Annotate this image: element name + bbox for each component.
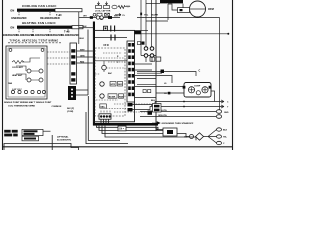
limit switch LS2 (104, 6, 110, 9)
wire to comp 2 (156, 92, 184, 94)
compressor box COMP (184, 83, 211, 98)
wire from enclosure top to fuse holder (134, 30, 148, 32)
wire row 2b (137, 72, 162, 74)
cooling fan logic tick mark t1 (49, 12, 51, 16)
thermostat mounting screw top-right (41, 49, 44, 52)
wire BLK to enclosure (79, 27, 94, 29)
svg-text:COMMON: COMMON (52, 106, 62, 108)
thick bottom bus bar (93, 123, 158, 126)
svg-text:HTR: HTR (111, 84, 116, 86)
svg-text:GND: GND (224, 112, 229, 114)
24V common terminal block (68, 86, 76, 100)
svg-text:FAN: FAN (119, 95, 124, 98)
wire G to board (77, 62, 93, 64)
thermostat internal wires (16, 66, 39, 80)
svg-text:ON: ON (10, 25, 14, 29)
compressor motor winding right (202, 87, 208, 93)
svg-text:IFC: IFC (104, 43, 110, 47)
capacitor box 46 (163, 128, 177, 136)
terminal oval YEL (217, 135, 222, 138)
svg-text:FAN: FAN (8, 82, 13, 85)
long wire with arrow 2 (155, 105, 224, 108)
svg-text:G W Y R C: G W Y R C (12, 89, 22, 91)
svg-text:COOLING FAN LOGIC: COOLING FAN LOGIC (22, 4, 57, 8)
svg-text:DE-ENERGIZED: DE-ENERGIZED (61, 34, 79, 37)
vertical wire parallel to enclosure (87, 30, 89, 96)
wire W to board (77, 50, 93, 52)
svg-text:OFM: OFM (208, 7, 214, 11)
relay K2 contact block (110, 82, 116, 87)
svg-text:DE-ENERGIZED: DE-ENERGIZED (31, 34, 49, 37)
field 24V wiring legend box (22, 129, 43, 135)
wire from heating logic down to terminal strip (78, 12, 80, 44)
wire row 3 (135, 76, 173, 84)
svg-text:RED: RED (80, 61, 85, 63)
svg-text:WHT: WHT (114, 16, 119, 18)
thermostat contact (39, 78, 43, 82)
svg-text:COMP: COMP (194, 86, 201, 88)
terminal strip screw C (71, 78, 75, 81)
relay coil K3 (100, 94, 104, 98)
board lower terminal A (128, 103, 133, 106)
motor junction box (178, 8, 190, 13)
relay aux contact block (118, 82, 123, 87)
svg-text:HEATING FAN LOGIC: HEATING FAN LOGIC (22, 21, 56, 25)
grounded thru standoff note arrow (152, 122, 160, 125)
svg-text:SEC: SEC (100, 106, 105, 108)
wire RED from 24V block (76, 90, 88, 95)
thermostat fan switch contact (27, 78, 31, 82)
wire y97 (135, 97, 157, 99)
plug circle (190, 135, 194, 139)
svg-text:EAC: EAC (108, 72, 113, 75)
flame arrow (115, 14, 121, 16)
fuse link row (93, 13, 96, 16)
L2 terminal box (156, 57, 161, 61)
svg-text:COIL THERMOSTAT WIRE: COIL THERMOSTAT WIRE (8, 104, 36, 107)
heating fan logic tick mark t2 (49, 29, 51, 33)
nested return wires (86, 96, 196, 144)
wire GRN-YEL 1 (140, 111, 216, 113)
heating fan logic tick mark t1 (32, 29, 34, 33)
junction blob at bus (161, 70, 165, 74)
IFC inner dashed traces (95, 53, 152, 112)
contactor C contact pair 1 (144, 47, 148, 51)
wire WH across enclosure top (79, 17, 120, 19)
capacitor component pair (143, 90, 146, 93)
capacitor plates pair 2 (111, 35, 115, 41)
thermostat dashed boundary line (8, 42, 62, 44)
capacitor oval (112, 5, 117, 9)
svg-text:CAPACITOR: CAPACITOR (161, 1, 175, 4)
relay K3 contact block (108, 94, 117, 98)
blower control enclosure box (94, 30, 135, 121)
long wire to right edge (134, 33, 228, 35)
svg-text:24V (P): 24V (P) (67, 107, 74, 110)
door switch box on enclosure edge (104, 26, 108, 30)
svg-text:YEL: YEL (144, 15, 149, 17)
fuse holder on wire (135, 31, 142, 34)
top right black component bar (160, 0, 183, 3)
thermostat internal wire (22, 58, 40, 62)
ground lug box (118, 126, 126, 131)
terminal strip screw R (71, 72, 75, 75)
wire stubs from strip lower terminals (133, 102, 156, 110)
motor return wire down right side (137, 17, 220, 110)
board connector plug (99, 114, 111, 119)
compressor motor winding left (188, 87, 194, 93)
contactor C contact pair 2 (144, 54, 148, 58)
compressor internal overload (196, 91, 200, 95)
heating fan logic tick mark t3 (67, 29, 69, 33)
svg-text:GROUNDED THRU STANDOFF: GROUNDED THRU STANDOFF (162, 122, 194, 125)
thermostat switch contact (39, 69, 43, 73)
terminal strip screw W (71, 49, 75, 52)
wire stub y78 (137, 78, 156, 80)
svg-text:BLK: BLK (80, 38, 85, 40)
IFC inner solid separator (94, 60, 128, 62)
svg-text:ON: ON (10, 8, 14, 12)
svg-text:BLWR: BLWR (152, 15, 159, 17)
svg-text:SEC: SEC (118, 84, 123, 86)
compressor terminal left (183, 86, 186, 89)
outdoor fan motor OFM (190, 1, 206, 17)
svg-text:BLK: BLK (83, 26, 88, 28)
thermostat terminal screw row (11, 90, 45, 93)
contactor wires (141, 55, 156, 57)
wire down at left of notes (51, 135, 53, 150)
terminal strip screw G (71, 61, 75, 64)
heating fan logic energized bar (17, 26, 72, 29)
svg-text:BLWR: BLWR (109, 96, 116, 98)
notes box bottom (4, 144, 79, 151)
inline connector blob (90, 16, 93, 19)
svg-text:(OPTIONAL: (OPTIONAL (57, 136, 69, 139)
legend abbreviation block (dark) (4, 130, 18, 137)
resistor heater element (118, 6, 126, 9)
vertical supply wires (141, 0, 168, 56)
line wiring legend box (22, 136, 39, 141)
plug diamond (196, 133, 204, 140)
svg-text:COOL ANT: COOL ANT (12, 66, 23, 69)
wire strip row stub 1 (135, 63, 153, 65)
cooling fan logic de-energized bar (55, 9, 82, 12)
wire y84 (137, 83, 156, 85)
thick enclosure left edge bar (93, 22, 95, 126)
svg-text:WHT: WHT (80, 49, 85, 51)
compressor terminal right (209, 86, 212, 89)
board lower terminal B (128, 108, 133, 111)
junction blob (168, 92, 171, 95)
relay coil K2 (100, 82, 104, 86)
wire to motor (182, 4, 184, 8)
left border line of schematic sheet (2, 0, 4, 150)
heating fan logic de-energized bar (72, 26, 83, 29)
long wire with arrow 1 (155, 100, 224, 103)
wire Y to board (77, 56, 93, 58)
svg-text:(COM): (COM) (67, 111, 74, 113)
thermostat mounting screw top-left (9, 49, 12, 52)
cooling fan logic energized bar (17, 9, 55, 12)
svg-text:ACCESSORY): ACCESSORY) (57, 139, 71, 142)
limit switch LS1 (96, 6, 102, 9)
inline blob 2 (108, 16, 112, 19)
terminal strip screw Y (71, 55, 75, 58)
low voltage terminal strip TB-LV (70, 43, 77, 84)
transformer secondary box (100, 104, 107, 108)
top components row: limit switch arrows (97, 2, 99, 5)
svg-text:HEAT ANT: HEAT ANT (12, 74, 23, 77)
main vertical bus wire (156, 0, 163, 130)
svg-text:GRN-YEL: GRN-YEL (158, 115, 168, 117)
svg-text:GRN: GRN (80, 55, 85, 57)
wire GRN-YEL 2 (140, 116, 216, 118)
L1 terminal box (150, 57, 155, 61)
bottom border line of schematic sheet (3, 146, 233, 148)
thermostat dashed field wires to strip (47, 52, 70, 64)
IFC dashed board outline (95, 48, 125, 116)
plug circles on wire (96, 16, 99, 19)
small terminal block right of board (153, 104, 162, 113)
relay aux contact block 2 (119, 94, 124, 98)
fan-out wires to terminals (204, 130, 217, 144)
inductor coil (126, 6, 130, 7)
right border line of schematic sheet (232, 0, 234, 150)
heating fan logic tick mark t0 (18, 29, 20, 33)
junction dots on wires (183, 101, 185, 103)
cooling fan logic tick mark t0 (18, 12, 20, 16)
small fuse pair right of strip (138, 42, 141, 45)
svg-text:TYPICAL HEAT/COOL T'STAT WIRIN: TYPICAL HEAT/COOL T'STAT WIRING (10, 40, 59, 43)
svg-text:BLK: BLK (223, 130, 228, 132)
board edge terminal strip (127, 41, 135, 102)
thermostat mercury bulb switch (27, 69, 31, 73)
svg-text:WH: WH (83, 16, 87, 18)
thermostat anticipator resistor (12, 61, 24, 64)
terminal oval C (217, 141, 222, 144)
wire strip to contactor coil (137, 72, 196, 77)
wire row 2 (135, 69, 153, 71)
terminal oval BLK (217, 128, 222, 131)
relay coil K1 (102, 65, 107, 70)
svg-text:SINGLE POINT WIRING MAY T SING: SINGLE POINT WIRING MAY T SINGLE POINT (4, 101, 52, 104)
svg-text:C: C (199, 70, 201, 73)
thermostat TSTAT enclosure box (6, 46, 47, 99)
svg-text:ENERGIZED: ENERGIZED (11, 16, 26, 20)
svg-text:DE-ENERGIZED: DE-ENERGIZED (40, 16, 60, 20)
wire to comp 1 (135, 86, 185, 88)
compressor output wire drop (211, 91, 215, 102)
svg-text:LS OL CAP HTR: LS OL CAP HTR (95, 9, 111, 12)
capacitor plates pair 1 (111, 26, 115, 32)
enclosure inner separator line (95, 37, 127, 39)
